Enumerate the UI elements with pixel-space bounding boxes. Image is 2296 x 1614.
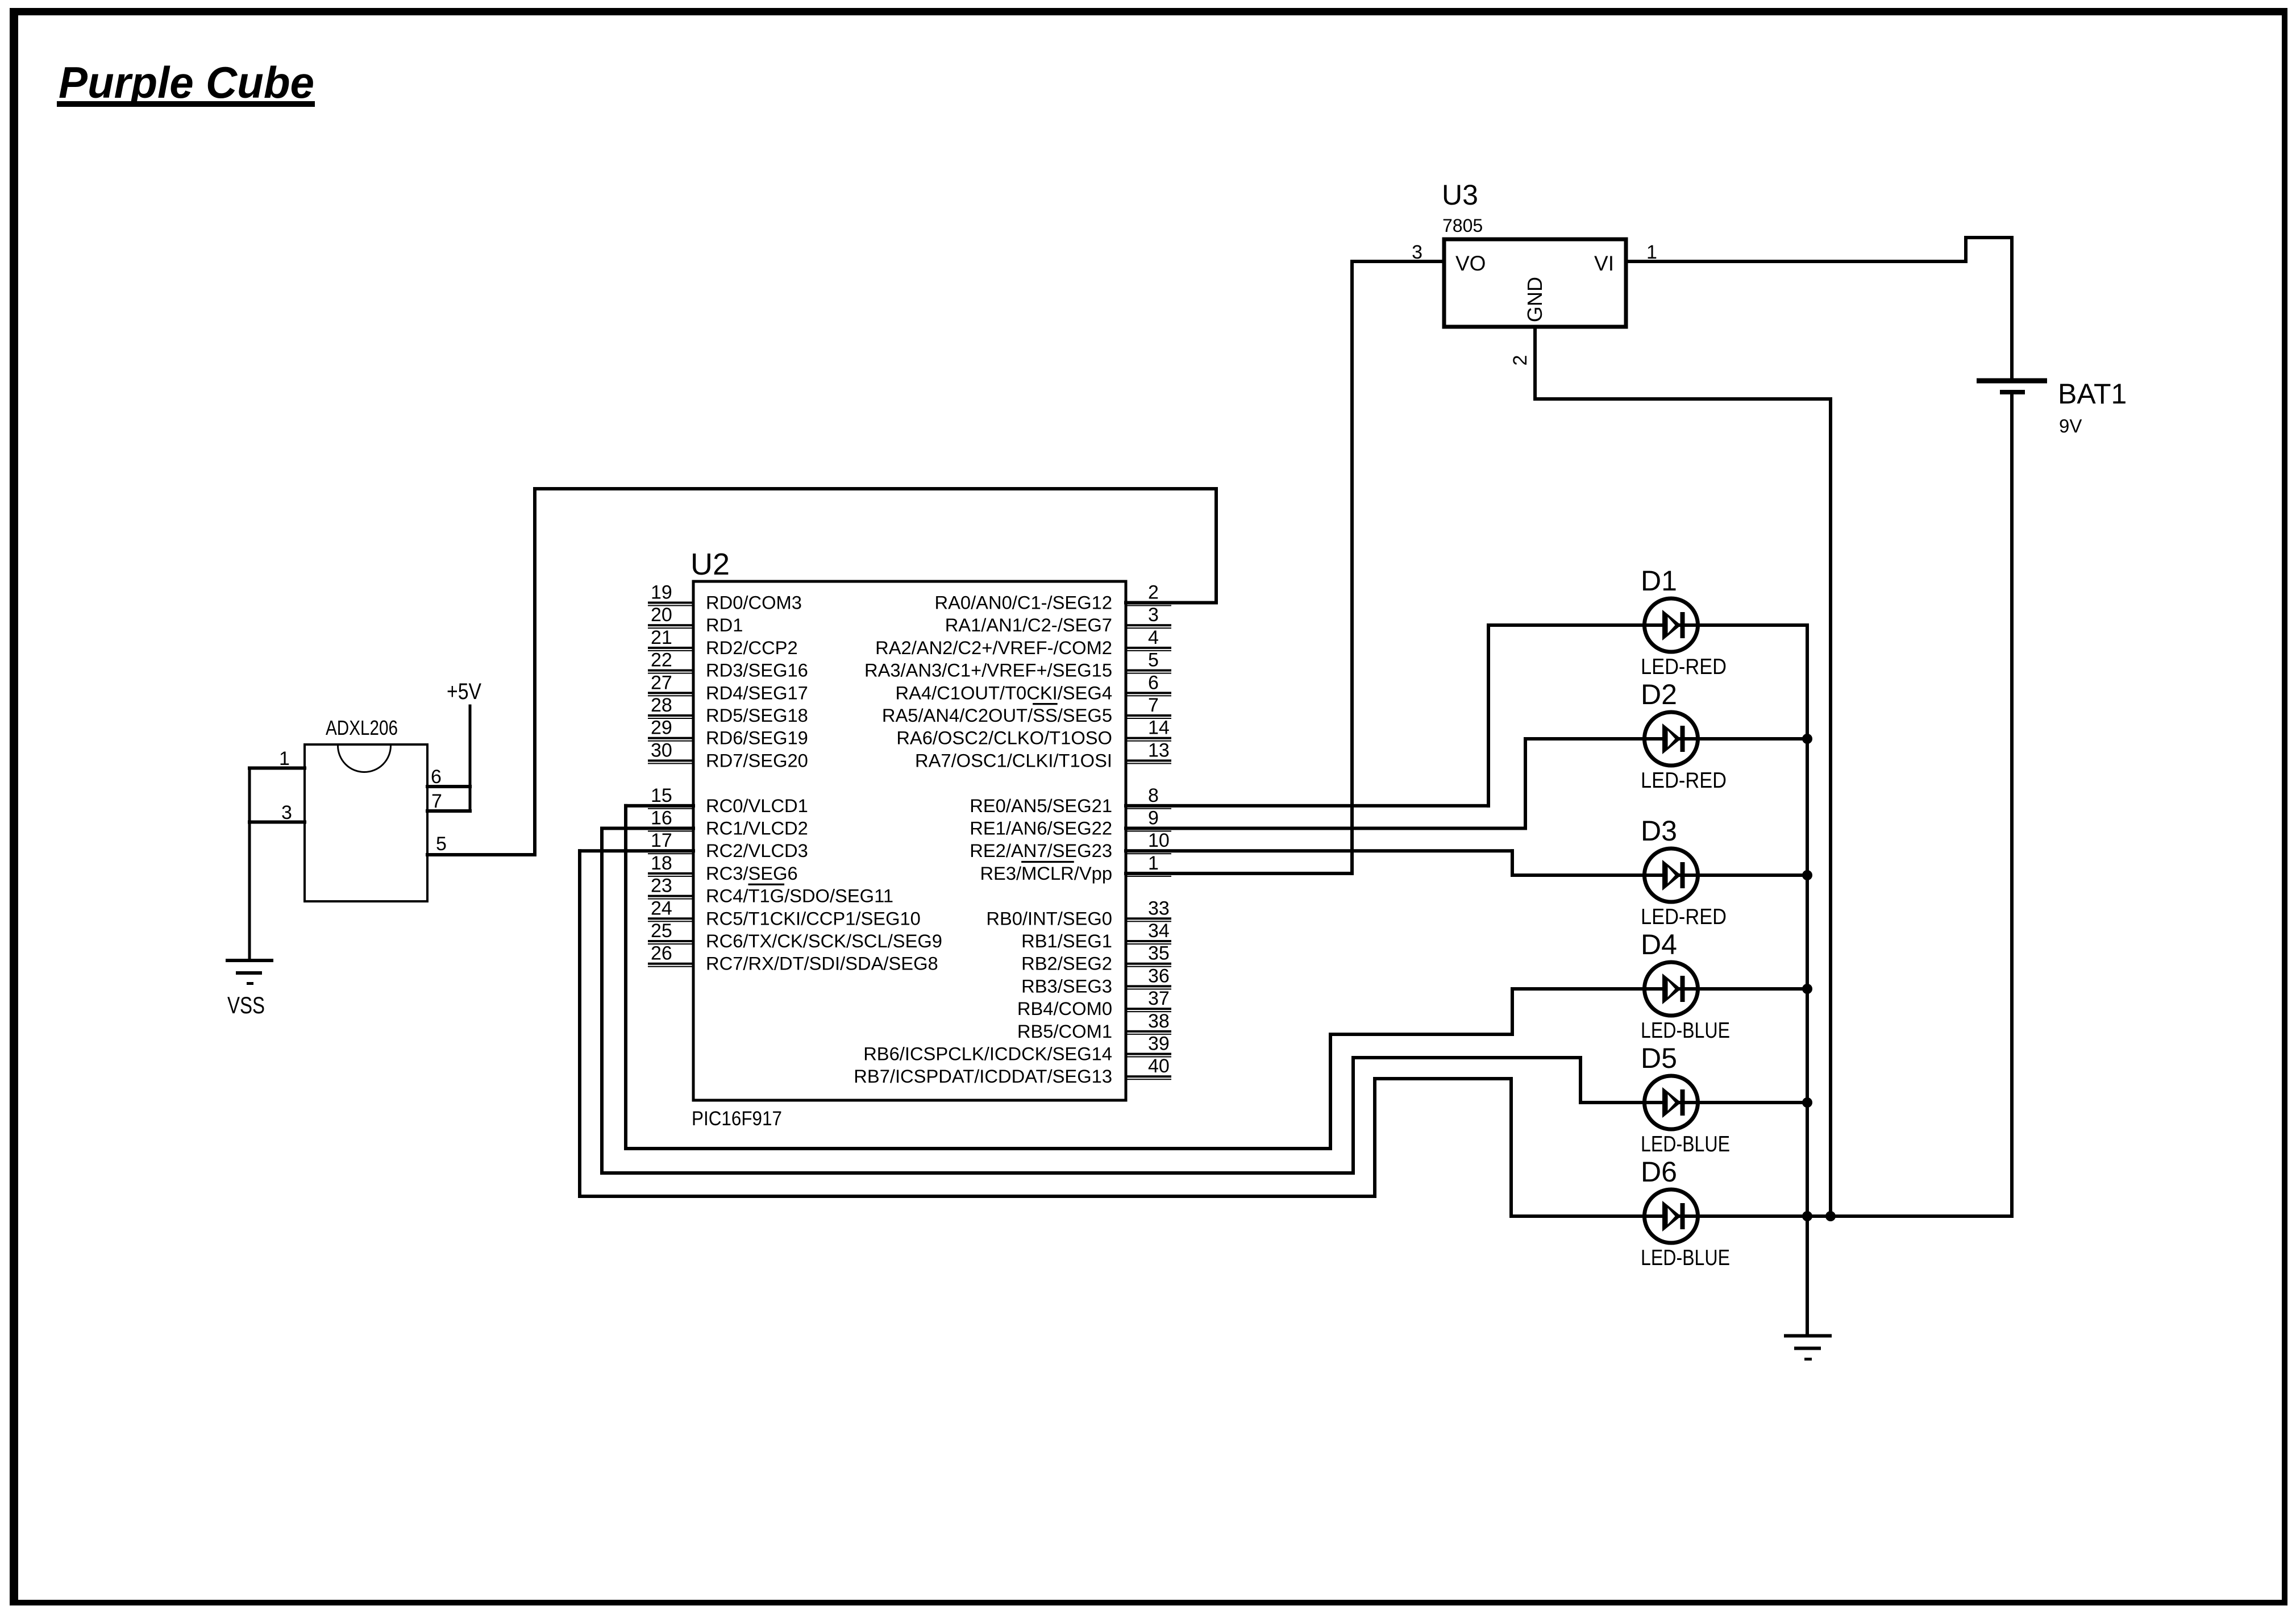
svg-text:RA0/AN0/C1-/SEG12: RA0/AN0/C1-/SEG12 — [935, 592, 1112, 613]
svg-text:21: 21 — [651, 627, 672, 648]
junction D3 cathode — [1802, 870, 1812, 880]
svg-text:22: 22 — [651, 650, 672, 671]
U3 pin number 2 (rotated) — [1509, 355, 1531, 366]
accelerometer ADXL206 body — [305, 744, 427, 901]
svg-text:D4: D4 — [1641, 929, 1677, 960]
U2 pin 28 (RD5/SEG18) — [648, 694, 808, 726]
svg-text:RB3/SEG3: RB3/SEG3 — [1021, 975, 1112, 996]
LED D4 (LED-BLUE) — [1641, 962, 1809, 1016]
U2 pin 18 (RC3/SEG6) — [648, 852, 798, 884]
svg-text:2: 2 — [1148, 582, 1159, 604]
svg-text:D3: D3 — [1641, 815, 1677, 847]
ground symbol (bottom right) — [1784, 1334, 1832, 1361]
U2 pin 27 (RD4/SEG17) — [648, 672, 808, 703]
svg-text:20: 20 — [651, 604, 672, 626]
U2 pin 14 (RA6/OSC2/CLKO/T1OSO) — [896, 717, 1171, 748]
U2 pin 30 (RD7/SEG20) — [648, 739, 808, 771]
U2 pin 26 (RC7/RX/DT/SDI/SDA/SEG8) — [648, 943, 938, 974]
wire: U2 RE2 pin10 to D3 anode — [1124, 849, 1644, 877]
junction cathode bus / battery row — [1802, 1211, 1812, 1221]
svg-text:RC0/VLCD1: RC0/VLCD1 — [706, 795, 808, 816]
U2 pin 33 (RB0/INT/SEG0) — [986, 897, 1171, 929]
svg-text:25: 25 — [651, 920, 672, 942]
D5 reference label — [1641, 1042, 1677, 1074]
U2 pin 7 (RA5/AN4/C2OUT/SS/SEG5) — [882, 694, 1171, 726]
svg-text:34: 34 — [1148, 920, 1170, 942]
svg-text:RB4/COM0: RB4/COM0 — [1017, 998, 1112, 1019]
svg-text:RD4/SEG17: RD4/SEG17 — [706, 682, 808, 703]
svg-text:VI: VI — [1594, 252, 1614, 275]
wire: U3 GND pin2 to ground node — [1533, 325, 1832, 1218]
svg-text:PIC16F917: PIC16F917 — [692, 1108, 782, 1130]
svg-text:RC7/RX/DT/SDI/SDA/SEG8: RC7/RX/DT/SDI/SDA/SEG8 — [706, 953, 938, 974]
svg-text:9: 9 — [1148, 808, 1159, 829]
D3 value label LED-RED — [1641, 905, 1727, 929]
wire: ADXL206 pin5 to U2 RA0 (net over top) — [533, 487, 1218, 856]
svg-text:RC1/VLCD2: RC1/VLCD2 — [706, 818, 808, 839]
svg-text:RA6/OSC2/CLKO/T1OSO: RA6/OSC2/CLKO/T1OSO — [896, 727, 1112, 748]
D3 reference label — [1641, 815, 1677, 847]
U2 pin 10 (RE2/AN7/SEG23) — [970, 830, 1171, 861]
svg-text:VO: VO — [1455, 252, 1486, 275]
svg-text:VSS: VSS — [227, 992, 265, 1018]
svg-text:GND: GND — [1523, 277, 1546, 322]
svg-text:38: 38 — [1148, 1010, 1170, 1032]
svg-text:D6: D6 — [1641, 1156, 1677, 1188]
U2 reference label — [691, 547, 730, 581]
wire: U2 RC2 pin17 to D6 anode — [578, 849, 1644, 1218]
svg-text:RD0/COM3: RD0/COM3 — [706, 592, 802, 613]
svg-text:7: 7 — [1148, 694, 1159, 716]
IC U2 PIC16F917 body — [693, 581, 1126, 1100]
svg-text:RC3/SEG6: RC3/SEG6 — [706, 863, 798, 884]
U2 pin 21 (RD2/CCP2) — [648, 627, 798, 658]
ADXL206 pin 3 — [248, 802, 306, 824]
svg-text:Purple Cube: Purple Cube — [59, 57, 314, 107]
ADXL206 pin 5 — [426, 833, 536, 856]
svg-text:RA5/AN4/C2OUT/SS/SEG5: RA5/AN4/C2OUT/SS/SEG5 — [882, 705, 1112, 726]
svg-text:15: 15 — [651, 785, 672, 806]
D6 value label LED-BLUE — [1641, 1246, 1730, 1270]
U2 pin 5 (RA3/AN3/C1+/VREF+/SEG15) — [864, 650, 1171, 681]
svg-text:RA2/AN2/C2+/VREF-/COM2: RA2/AN2/C2+/VREF-/COM2 — [875, 637, 1112, 658]
svg-text:3: 3 — [281, 802, 292, 823]
U2 pin 19 (RD0/COM3) — [648, 582, 802, 613]
junction U3 GND / battery row — [1825, 1211, 1836, 1221]
U3 pin name VI — [1594, 252, 1614, 275]
junction D4 cathode — [1802, 984, 1812, 994]
VSS net label — [227, 992, 265, 1018]
U2 pin 24 (RC5/T1CKI/CCP1/SEG10) — [648, 897, 921, 929]
svg-text:D5: D5 — [1641, 1042, 1677, 1074]
svg-text:28: 28 — [651, 694, 672, 716]
svg-text:+5V: +5V — [447, 679, 481, 704]
svg-text:14: 14 — [1148, 717, 1170, 739]
svg-text:RD6/SEG19: RD6/SEG19 — [706, 727, 808, 748]
junction D5 cathode — [1802, 1097, 1812, 1108]
U2 pin 37 (RB4/COM0) — [1017, 988, 1171, 1019]
svg-text:1: 1 — [1148, 852, 1159, 874]
wire: U2 RC1 pin16 to D5 anode — [600, 827, 1644, 1175]
svg-text:29: 29 — [651, 717, 672, 739]
U2 pin 36 (RB3/SEG3) — [1021, 965, 1171, 996]
wire: +5V rail U3 VO pin3 to U2 RE3/MCLR pin1 — [1124, 260, 1446, 875]
U3 pin name VO — [1455, 252, 1486, 275]
svg-text:RB1/SEG1: RB1/SEG1 — [1021, 930, 1112, 951]
D2 value label LED-RED — [1641, 768, 1727, 793]
svg-text:LED-RED: LED-RED — [1641, 655, 1727, 679]
U2 pin 25 (RC6/TX/CK/SCK/SCL/SEG9) — [648, 920, 942, 951]
svg-text:ADXL206: ADXL206 — [326, 716, 398, 739]
svg-text:RC6/TX/CK/SCK/SCL/SEG9: RC6/TX/CK/SCK/SCL/SEG9 — [706, 930, 942, 951]
svg-text:2: 2 — [1509, 355, 1531, 366]
svg-text:RE3/MCLR/Vpp: RE3/MCLR/Vpp — [980, 863, 1112, 884]
svg-text:RE0/AN5/SEG21: RE0/AN5/SEG21 — [970, 795, 1112, 816]
wire: BAT1 negative down to common cathode row — [2010, 390, 2014, 1218]
svg-text:6: 6 — [431, 766, 442, 788]
svg-text:RA4/C1OUT/T0CKI/SEG4: RA4/C1OUT/T0CKI/SEG4 — [896, 682, 1112, 703]
U3 reference label — [1442, 179, 1478, 211]
svg-text:7805: 7805 — [1442, 215, 1483, 236]
svg-text:23: 23 — [651, 875, 672, 897]
D1 value label LED-RED — [1641, 655, 1727, 679]
svg-text:U2: U2 — [691, 547, 730, 581]
D4 value label LED-BLUE — [1641, 1018, 1730, 1043]
D2 reference label — [1641, 679, 1677, 710]
+5V power terminal — [447, 679, 481, 813]
LED D1 (LED-RED) — [1641, 598, 1809, 652]
U2 pin 13 (RA7/OSC1/CLKI/T1OSI) — [915, 739, 1171, 771]
ADXL206 value label — [326, 716, 398, 739]
wire: U3 VI pin1 to BAT1 positive — [1624, 236, 2014, 380]
ADXL206 pin 7 — [426, 791, 472, 813]
svg-text:3: 3 — [1148, 604, 1159, 626]
svg-text:LED-BLUE: LED-BLUE — [1641, 1018, 1730, 1043]
wire: U2 RC0 pin15 to D4 anode — [624, 804, 1644, 1150]
svg-text:D2: D2 — [1641, 679, 1677, 710]
svg-text:6: 6 — [1148, 672, 1159, 693]
svg-text:10: 10 — [1148, 830, 1170, 851]
battery BAT1 symbol — [1977, 378, 2047, 395]
svg-text:LED-BLUE: LED-BLUE — [1641, 1132, 1730, 1157]
svg-text:LED-BLUE: LED-BLUE — [1641, 1246, 1730, 1270]
svg-text:33: 33 — [1148, 897, 1170, 919]
svg-text:RD1: RD1 — [706, 614, 743, 635]
wire: common cathode row to battery (D6 row) — [1806, 1214, 2014, 1218]
svg-text:40: 40 — [1148, 1055, 1170, 1077]
svg-text:RB7/ICSPDAT/ICDDAT/SEG13: RB7/ICSPDAT/ICDDAT/SEG13 — [854, 1066, 1112, 1087]
svg-text:RC4/T1G/SDO/SEG11: RC4/T1G/SDO/SEG11 — [706, 885, 893, 906]
wire: LED cathode bus — [1806, 623, 1809, 1337]
U2 pin 3 (RA1/AN1/C2-/SEG7) — [945, 604, 1171, 635]
U2 pin 16 (RC1/VLCD2) — [648, 808, 808, 839]
svg-text:7: 7 — [431, 791, 442, 812]
svg-text:5: 5 — [436, 833, 447, 855]
U2 pin 6 (RA4/C1OUT/T0CKI/SEG4) — [896, 672, 1171, 703]
svg-text:39: 39 — [1148, 1033, 1170, 1055]
svg-text:9V: 9V — [2059, 415, 2082, 436]
D1 reference label — [1641, 565, 1677, 597]
svg-text:RB0/INT/SEG0: RB0/INT/SEG0 — [986, 908, 1112, 929]
U2 value label PIC16F917 — [692, 1108, 782, 1130]
U2 pin 17 (RC2/VLCD3) — [648, 830, 808, 861]
svg-text:D1: D1 — [1641, 565, 1677, 597]
U2 pin 38 (RB5/COM1) — [1017, 1010, 1171, 1042]
U3 pin name GND (rotated) — [1523, 277, 1546, 322]
svg-text:RD7/SEG20: RD7/SEG20 — [706, 750, 808, 771]
U3 value label 7805 — [1442, 215, 1483, 236]
voltage regulator U3 body — [1444, 239, 1626, 327]
ground VSS symbol — [226, 767, 273, 985]
U2 pin 23 (RC4/T1G/SDO/SEG11) — [648, 875, 893, 906]
ADXL206 pin 1 — [248, 748, 306, 770]
U2 pin 34 (RB1/SEG1) — [1021, 920, 1171, 951]
wire: U2 RE1 pin9 to D2 anode — [1124, 737, 1644, 830]
title Purple Cube — [57, 57, 315, 107]
svg-text:17: 17 — [651, 830, 672, 851]
svg-text:13: 13 — [1148, 739, 1170, 761]
svg-text:RE1/AN6/SEG22: RE1/AN6/SEG22 — [970, 818, 1112, 839]
U3 pin number 1 — [1646, 242, 1657, 263]
svg-text:RA1/AN1/C2-/SEG7: RA1/AN1/C2-/SEG7 — [945, 614, 1112, 635]
U2 pin 1 (RE3/MCLR/Vpp) — [980, 852, 1171, 884]
svg-text:27: 27 — [651, 672, 672, 693]
svg-text:19: 19 — [651, 582, 672, 604]
svg-text:RB6/ICSPCLK/ICDCK/SEG14: RB6/ICSPCLK/ICDCK/SEG14 — [863, 1043, 1112, 1064]
BAT1 value label 9V — [2059, 415, 2082, 436]
U2 pin 39 (RB6/ICSPCLK/ICDCK/SEG14) — [863, 1033, 1171, 1064]
wire: U2 RE0 pin8 to D1 anode — [1124, 623, 1644, 808]
svg-text:5: 5 — [1148, 650, 1159, 671]
svg-text:26: 26 — [651, 943, 672, 964]
U2 pin 8 (RE0/AN5/SEG21) — [970, 785, 1171, 816]
U2 pin 4 (RA2/AN2/C2+/VREF-/COM2) — [875, 627, 1171, 658]
LED D2 (LED-RED) — [1641, 712, 1809, 766]
svg-text:RC5/T1CKI/CCP1/SEG10: RC5/T1CKI/CCP1/SEG10 — [706, 908, 921, 929]
D5 value label LED-BLUE — [1641, 1132, 1730, 1157]
U2 pin 40 (RB7/ICSPDAT/ICDDAT/SEG13) — [854, 1055, 1171, 1087]
svg-text:RD3/SEG16: RD3/SEG16 — [706, 660, 808, 681]
U2 pin 15 (RC0/VLCD1) — [648, 785, 808, 816]
LED D5 (LED-BLUE) — [1641, 1076, 1809, 1129]
svg-text:35: 35 — [1148, 943, 1170, 964]
svg-text:4: 4 — [1148, 627, 1159, 648]
svg-text:RB2/SEG2: RB2/SEG2 — [1021, 953, 1112, 974]
svg-text:24: 24 — [651, 897, 672, 919]
svg-text:16: 16 — [651, 808, 672, 829]
D4 reference label — [1641, 929, 1677, 960]
svg-text:36: 36 — [1148, 965, 1170, 987]
svg-text:RD5/SEG18: RD5/SEG18 — [706, 705, 808, 726]
LED D6 (LED-BLUE) — [1641, 1189, 1809, 1243]
svg-text:LED-RED: LED-RED — [1641, 905, 1727, 929]
svg-text:RC2/VLCD3: RC2/VLCD3 — [706, 840, 808, 861]
svg-text:RE2/AN7/SEG23: RE2/AN7/SEG23 — [970, 840, 1112, 861]
svg-text:30: 30 — [651, 739, 672, 761]
U2 pin 2 (RA0/AN0/C1-/SEG12) — [935, 582, 1171, 613]
svg-text:U3: U3 — [1442, 179, 1478, 211]
svg-text:RB5/COM1: RB5/COM1 — [1017, 1021, 1112, 1042]
svg-text:RD2/CCP2: RD2/CCP2 — [706, 637, 798, 658]
LED D3 (LED-RED) — [1641, 848, 1809, 902]
svg-text:8: 8 — [1148, 785, 1159, 806]
U3 pin number 3 — [1412, 242, 1422, 263]
U2 pin 20 (RD1) — [648, 604, 743, 635]
U2 pin 9 (RE1/AN6/SEG22) — [970, 808, 1171, 839]
svg-text:18: 18 — [651, 852, 672, 874]
svg-text:37: 37 — [1148, 988, 1170, 1009]
D6 reference label — [1641, 1156, 1677, 1188]
U2 pin 35 (RB2/SEG2) — [1021, 943, 1171, 974]
U2 pin 22 (RD3/SEG16) — [648, 650, 808, 681]
U2 pin 29 (RD6/SEG19) — [648, 717, 808, 748]
junction D2 cathode — [1802, 734, 1812, 744]
BAT1 reference label — [2058, 378, 2127, 410]
svg-text:LED-RED: LED-RED — [1641, 768, 1727, 793]
svg-text:1: 1 — [279, 748, 290, 769]
svg-text:RA3/AN3/C1+/VREF+/SEG15: RA3/AN3/C1+/VREF+/SEG15 — [864, 660, 1112, 681]
svg-text:RA7/OSC1/CLKI/T1OSI: RA7/OSC1/CLKI/T1OSI — [915, 750, 1112, 771]
svg-text:BAT1: BAT1 — [2058, 378, 2127, 410]
ADXL206 pin 6 — [426, 766, 472, 788]
